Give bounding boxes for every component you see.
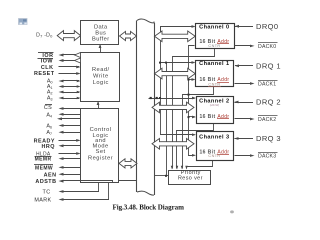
svg-text:16 Bit Addr: 16 Bit Addr [200, 114, 230, 120]
DACK3 wire and label [235, 153, 278, 160]
label IOW [38, 58, 82, 65]
svg-text:Set: Set [96, 149, 106, 155]
label A0 [47, 79, 81, 85]
box: Channel 1 [196, 61, 234, 87]
svg-text:CNTR: CNTR [208, 154, 220, 158]
label MEMR [35, 157, 82, 163]
svg-text:CLK: CLK [41, 65, 54, 71]
label HRQ [42, 144, 81, 150]
svg-text:Logic: Logic [93, 80, 109, 86]
wire: ch2 lower stub [189, 116, 197, 119]
bus to ch3 double arrow [152, 139, 194, 150]
svg-text:Data: Data [94, 24, 108, 30]
box: Control Logic and Mode Set Register [81, 109, 119, 183]
label READY [34, 139, 81, 145]
svg-text:Channel 1: Channel 1 [199, 61, 229, 67]
label IOR [38, 53, 81, 59]
control to bus double arrow [119, 159, 137, 168]
wire: vertical net v166 [166, 63, 168, 176]
box: Channel 2 [197, 97, 234, 124]
box: Channel 3 [197, 132, 234, 161]
svg-text:CNTR: CNTR [208, 44, 220, 48]
small gray oval artifact [230, 210, 234, 213]
bus to ch0 double arrow [155, 31, 196, 42]
svg-text:DACK1: DACK1 [258, 82, 276, 88]
svg-text:DRQ 3: DRQ 3 [256, 134, 281, 143]
wire: ch1 lower stub [189, 78, 196, 81]
wire: ch2 top stub [149, 97, 197, 100]
bus to ch2 double arrow [152, 102, 194, 113]
label MARK [34, 183, 109, 204]
label A3 [47, 96, 81, 102]
label A7 [46, 130, 81, 136]
svg-text:Reso ver: Reso ver [178, 175, 203, 181]
internal bus right line [154, 23, 156, 195]
wire: control box right to bus [119, 180, 138, 182]
label AEN [44, 172, 81, 178]
svg-text:RESET: RESET [34, 71, 55, 77]
svg-text:DACK3: DACK3 [258, 154, 276, 160]
bus top torn curve [137, 19, 154, 23]
svg-text:MEMW: MEMW [35, 166, 53, 172]
wire: ch0 lower link to ch1 [189, 46, 197, 157]
svg-text:ADSTB: ADSTB [35, 179, 56, 185]
wire A5 (label faded in scan) [57, 117, 81, 120]
priority input arrow 3 [181, 166, 184, 170]
DRQ2 wire and label [234, 98, 281, 107]
box: Channel 0 [196, 24, 235, 49]
wire: bus to priority [154, 175, 169, 177]
DACK2 wire and label [235, 116, 278, 124]
svg-text:AEN: AEN [44, 172, 57, 178]
box: Read/Write Logic [81, 53, 120, 102]
svg-text:D7 -D0: D7 -D0 [36, 32, 53, 38]
wire: ch2 bottom dogleg to priority [177, 124, 214, 169]
svg-text:DACK0: DACK0 [258, 44, 276, 50]
DACK1 wire and label [235, 81, 278, 88]
internal bus left line [136, 21, 138, 193]
wire: DB buffer to R/W logic vertical [99, 44, 102, 53]
svg-text:IOW: IOW [41, 59, 54, 65]
label A2 [47, 90, 81, 96]
label A6 [46, 124, 81, 130]
label A1 [47, 84, 81, 90]
wire: ch3 bottom dogleg to priority [187, 161, 213, 169]
bus bottom torn curve [137, 191, 154, 195]
svg-text:MARK: MARK [34, 198, 51, 204]
DRQ3 wire and label [234, 134, 281, 143]
label A4 [46, 112, 81, 118]
small image-placeholder icon top-left [19, 19, 28, 25]
svg-text:Register: Register [88, 155, 113, 161]
bus to ch1 double arrow [155, 68, 196, 79]
label CS [44, 105, 81, 112]
DRQ1 wire and label [235, 62, 281, 71]
svg-text:DACK2: DACK2 [258, 117, 276, 123]
wire: R/W logic to control vertical [97, 101, 100, 109]
svg-text:Channel 0: Channel 0 [199, 24, 229, 30]
wire: ch1 top stub [160, 61, 196, 64]
wire: ch0 top from vertical to box [161, 25, 196, 36]
svg-text:Bus: Bus [95, 31, 106, 37]
DB buffer to bus double arrow [120, 31, 137, 40]
label HLDA [36, 151, 81, 157]
label ADSTB [35, 179, 113, 185]
svg-text:Write: Write [93, 74, 109, 80]
label CLK [41, 65, 81, 71]
box: Data Bus Buffer [81, 21, 119, 45]
svg-text:DRQ 2: DRQ 2 [256, 98, 281, 107]
svg-text:HRQ: HRQ [42, 144, 55, 150]
D7-D0 double arrow [57, 31, 80, 41]
svg-text:TC: TC [43, 190, 51, 196]
wire: ch0 bottom dogleg to priority [173, 49, 215, 169]
DACK0 wire and label [235, 43, 278, 50]
box: Priority Resolver [169, 170, 211, 185]
svg-text:Fig.3.48. Block Diagram: Fig.3.48. Block Diagram [113, 203, 185, 211]
svg-text:MEMR: MEMR [35, 157, 52, 163]
DRQ0 wire and label [235, 22, 279, 31]
label RESET [34, 71, 81, 77]
label MEMW [34, 165, 81, 172]
priority input arrow 1 [171, 166, 174, 170]
wire: ch1 bottom dogleg to priority [183, 87, 214, 169]
svg-text:CS: CS [44, 105, 52, 111]
svg-text:Channel 3: Channel 3 [199, 134, 229, 140]
svg-text:CNTR: CNTR [208, 82, 220, 86]
label TC [43, 183, 100, 196]
svg-text:DRQ 1: DRQ 1 [256, 62, 281, 71]
svg-text:Buffer: Buffer [92, 37, 109, 43]
priority input arrow 2 [176, 166, 179, 170]
junction dots [159, 62, 161, 64]
svg-text:DRQ0: DRQ0 [256, 22, 278, 31]
wire: vertical net v160 [160, 27, 162, 135]
svg-text:(uRvW): (uRvW) [210, 103, 220, 107]
svg-text:Read/: Read/ [92, 67, 110, 73]
wire: ch3 top stub [160, 133, 196, 136]
priority input arrow 4 [185, 166, 188, 170]
